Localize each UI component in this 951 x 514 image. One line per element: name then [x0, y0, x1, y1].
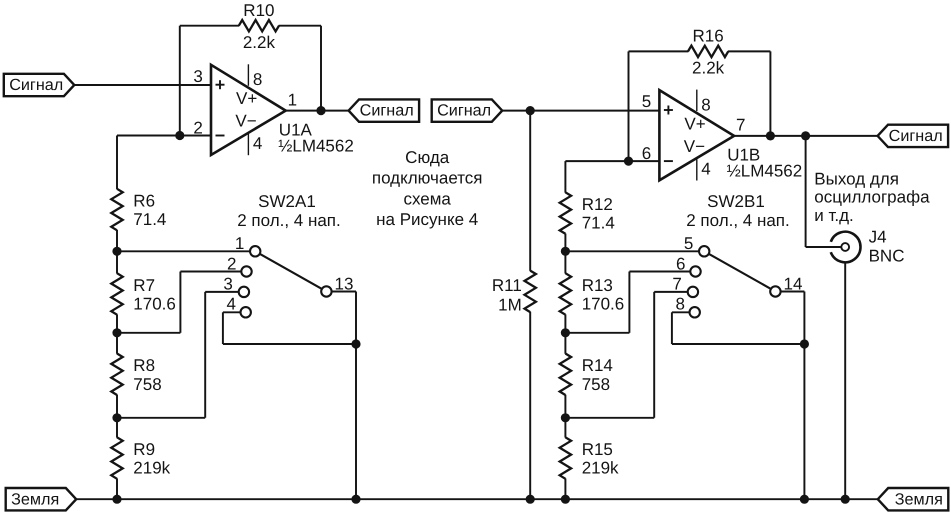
svg-text:4: 4 — [701, 160, 710, 179]
wire R16 left lead — [629, 50, 689, 52]
svg-text:758: 758 — [582, 375, 610, 394]
svg-text:SW2B1: SW2B1 — [707, 192, 765, 211]
svg-text:8: 8 — [676, 295, 685, 314]
wire divider top segment — [116, 136, 118, 190]
op-amp U1B — [659, 90, 734, 180]
junction bus/14 — [800, 339, 809, 348]
global label Земля (right) — [878, 488, 949, 510]
wire R10 to output node — [320, 26, 322, 111]
junction pin6/feedback — [624, 157, 633, 166]
wire right divider top — [564, 161, 566, 193]
resistor R8 758 — [111, 354, 122, 396]
global label Сигнал (left input) — [4, 74, 75, 96]
resistor R6 71.4 — [111, 189, 122, 231]
wire R12-R13 — [564, 234, 566, 274]
svg-text:3: 3 — [193, 67, 202, 86]
svg-text:R12: R12 — [582, 195, 613, 214]
svg-text:2.2k: 2.2k — [243, 33, 276, 52]
wire tap2 horizontal — [117, 332, 180, 334]
wire contact 7 horizontal — [654, 291, 688, 293]
wire contact 8 bus — [672, 343, 805, 345]
junction BNC shield/ground — [841, 495, 850, 504]
svg-text:½LM4562: ½LM4562 — [727, 162, 803, 181]
wire feedback vertical to pin6 — [628, 51, 630, 161]
connector J4 BNC — [831, 232, 861, 263]
wire common 14 horizontal — [781, 291, 805, 293]
wire feedback vertical to pin2 — [179, 26, 181, 136]
svg-text:V−: V− — [684, 137, 705, 156]
svg-text:V+: V+ — [236, 89, 257, 108]
junction input/R11 — [526, 106, 535, 115]
switch SW2B1 contact 6 — [690, 266, 700, 276]
svg-text:R9: R9 — [133, 440, 155, 459]
svg-text:Земля: Земля — [895, 490, 943, 508]
switch SW2B1 common 14 — [770, 286, 780, 296]
svg-text:Сюда: Сюда — [405, 148, 450, 167]
svg-text:R10: R10 — [243, 1, 274, 20]
svg-text:J4: J4 — [869, 228, 887, 247]
wire R7-R8 — [116, 314, 118, 353]
svg-text:1M: 1M — [498, 295, 522, 314]
svg-text:170.6: 170.6 — [582, 295, 625, 314]
wire contact 8 horizontal — [672, 311, 690, 313]
svg-text:Сигнал: Сигнал — [437, 102, 491, 120]
svg-text:7: 7 — [672, 274, 681, 293]
svg-text:подключается: подключается — [372, 169, 483, 188]
wire U1B output — [734, 135, 878, 137]
switch SW2A1 contact 1 — [250, 246, 260, 256]
svg-text:758: 758 — [133, 375, 161, 394]
svg-text:8: 8 — [701, 95, 710, 114]
resistor R10 2.2k — [239, 20, 279, 31]
global label Сигнал (right output) — [878, 125, 949, 147]
svg-text:R8: R8 — [133, 356, 155, 375]
svg-text:8: 8 — [253, 70, 262, 89]
global label Сигнал (left output) — [349, 99, 420, 121]
wire contact 2 horizontal — [180, 271, 241, 273]
wire contact 4 horizontal — [223, 311, 241, 313]
svg-text:Земля: Земля — [11, 490, 59, 508]
wire R15 to ground — [564, 479, 566, 500]
svg-text:Сигнал: Сигнал — [360, 102, 414, 120]
junction R12/R13 tap — [561, 247, 570, 256]
svg-text:R7: R7 — [133, 276, 155, 295]
switch SW2A1 arm — [260, 254, 322, 289]
svg-text:BNC: BNC — [869, 246, 905, 265]
svg-text:170.6: 170.6 — [133, 295, 176, 314]
svg-text:219k: 219k — [133, 459, 170, 478]
switch SW2A1 contact 3 — [239, 287, 249, 297]
wire R10 left lead — [180, 25, 239, 27]
svg-text:7: 7 — [736, 116, 745, 135]
wire U1A output — [286, 110, 349, 112]
svg-text:2 пол., 4 нап.: 2 пол., 4 нап. — [237, 211, 341, 230]
svg-text:5: 5 — [642, 92, 651, 111]
svg-text:2.2k: 2.2k — [692, 59, 725, 78]
junction 13/ground — [351, 495, 360, 504]
switch SW2B1 contact 8 — [690, 307, 700, 317]
junction right divider/ground — [561, 495, 570, 504]
wire contact 6 vertical — [628, 272, 630, 333]
wire ground rail — [76, 498, 878, 500]
junction output/R16 — [766, 131, 775, 140]
wire contact 6 horizontal — [629, 271, 690, 273]
svg-text:3: 3 — [223, 274, 232, 293]
junction R7/R8 tap — [112, 328, 121, 337]
global label Сигнал (middle input) — [432, 99, 503, 121]
junction R11/ground — [526, 495, 535, 504]
wire R6-R7 — [116, 230, 118, 274]
svg-text:5: 5 — [684, 234, 693, 253]
svg-text:R16: R16 — [693, 27, 724, 46]
resistor R15 219k — [560, 437, 571, 479]
wire tap to contact 5 — [565, 250, 699, 252]
wire R11 top — [529, 111, 531, 271]
switch SW2B1 arm — [709, 254, 771, 289]
svg-text:R15: R15 — [582, 440, 613, 459]
svg-text:4: 4 — [227, 295, 236, 314]
svg-text:R6: R6 — [133, 191, 155, 210]
junction R8/R9 tap — [112, 413, 121, 422]
resistor R14 758 — [560, 354, 571, 396]
wire contact 8 vertical — [671, 312, 673, 344]
switch SW2B1 contact 5 — [699, 246, 709, 256]
resistor R16 2.2k — [688, 46, 728, 57]
wire R9 to ground — [116, 479, 118, 500]
wire U1A pin2 to divider — [117, 135, 211, 137]
svg-text:R14: R14 — [582, 356, 613, 375]
junction divider/ground — [112, 495, 121, 504]
resistor R12 71.4 — [560, 192, 571, 234]
switch SW2B1 contact 7 — [688, 287, 698, 297]
svg-text:1: 1 — [235, 234, 244, 253]
svg-text:4: 4 — [253, 134, 262, 153]
wire contact 7 vertical — [653, 292, 655, 418]
resistor R11 1M — [525, 271, 536, 313]
wire contact 2 vertical — [179, 272, 181, 333]
junction output/R10 — [316, 106, 325, 115]
junction 14/ground — [800, 495, 809, 504]
switch SW2A1 contact 2 — [241, 266, 251, 276]
wire input to U1A pin3 — [74, 84, 211, 86]
wire R11 bottom — [529, 312, 531, 499]
wire tap3 horizontal — [117, 417, 205, 419]
resistor R13 170.6 — [560, 273, 571, 315]
junction bus/13 — [351, 339, 360, 348]
wire R16 right lead — [728, 50, 771, 52]
junction R6/R7 tap — [112, 247, 121, 256]
junction pin2/feedback — [175, 131, 184, 140]
svg-text:6: 6 — [676, 255, 685, 274]
svg-text:71.4: 71.4 — [133, 210, 166, 229]
wire common 13 horizontal — [332, 291, 356, 293]
svg-text:219k: 219k — [582, 459, 619, 478]
wire R16 to output node — [769, 51, 771, 135]
wire right tap2 horizontal — [565, 332, 629, 334]
svg-text:1: 1 — [288, 90, 297, 109]
switch SW2A1 contact 4 — [241, 307, 251, 317]
wire middle input to U1B pin5 — [502, 110, 659, 112]
svg-text:R11: R11 — [492, 276, 522, 295]
svg-text:Сигнал: Сигнал — [889, 127, 943, 145]
svg-text:R13: R13 — [582, 276, 613, 295]
svg-text:и т.д.: и т.д. — [814, 206, 854, 225]
wire BNC shield to ground — [844, 262, 846, 499]
svg-text:6: 6 — [642, 144, 651, 163]
svg-text:V+: V+ — [684, 115, 705, 134]
svg-text:V−: V− — [235, 112, 256, 131]
svg-text:2 пол., 4 нап.: 2 пол., 4 нап. — [686, 211, 790, 230]
wire tap1 to contact 1 — [117, 250, 250, 252]
wire contact 3 vertical — [204, 292, 206, 418]
wire contact 4 bus — [223, 343, 356, 345]
wire U1B pin6 — [565, 160, 659, 162]
wire common 14 vertical — [803, 292, 805, 500]
wire contact 4 vertical — [222, 312, 224, 344]
wire R14-R15 — [564, 395, 566, 438]
svg-text:SW2A1: SW2A1 — [258, 192, 316, 211]
switch SW2A1 common 13 — [321, 286, 331, 296]
svg-text:на Рисунке 4: на Рисунке 4 — [376, 210, 478, 229]
op-amp U1A — [211, 65, 286, 155]
wire R10 right lead — [279, 25, 321, 27]
svg-text:Выход для: Выход для — [814, 169, 899, 188]
svg-text:½LM4562: ½LM4562 — [278, 136, 354, 155]
wire right tap3 horizontal — [565, 417, 654, 419]
wire contact 3 horizontal — [205, 291, 239, 293]
junction output/BNC branch — [801, 131, 810, 140]
wire to BNC center pin — [806, 246, 842, 248]
wire R8-R9 — [116, 395, 118, 438]
global label Земля (left) — [6, 488, 77, 510]
resistor R7 170.6 — [111, 273, 122, 315]
wire common 13 vertical — [355, 292, 357, 500]
resistor R9 219k — [111, 437, 122, 479]
svg-text:схема: схема — [403, 189, 451, 208]
wire R13-R14 — [564, 314, 566, 353]
svg-text:осциллографа: осциллографа — [814, 188, 930, 207]
svg-text:71.4: 71.4 — [582, 214, 615, 233]
svg-text:2: 2 — [227, 255, 236, 274]
junction R14/R15 tap — [561, 413, 570, 422]
junction R13/R14 tap — [561, 328, 570, 337]
wire output to BNC vertical — [805, 136, 807, 247]
svg-text:Сигнал: Сигнал — [9, 76, 63, 94]
